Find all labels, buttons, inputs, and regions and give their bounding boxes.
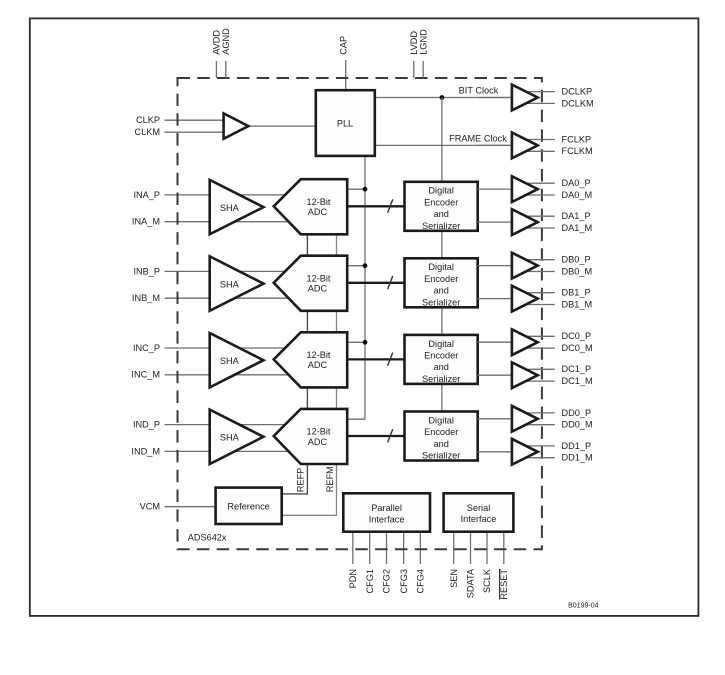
svg-text:DC1_P: DC1_P (562, 364, 592, 374)
bus ADC A to encoder (347, 205, 404, 207)
wire INA_M input (165, 221, 311, 223)
ADC 12-bit channel B (274, 256, 348, 311)
wire DA1_M output (516, 227, 555, 229)
amplifier SHA channel B (210, 256, 264, 310)
svg-text:Parallel: Parallel (371, 503, 402, 513)
svg-text:ADS642x: ADS642x (188, 532, 227, 542)
pin tick AGND (225, 61, 227, 78)
amplifier SHA channel D (210, 410, 264, 464)
buffer clock input (224, 113, 249, 138)
wire ADC clock tap channel B (347, 265, 365, 267)
svg-text:Interface: Interface (369, 514, 405, 524)
svg-text:and: and (434, 439, 449, 449)
svg-text:VCM: VCM (140, 502, 160, 512)
wire FCLKM output (516, 150, 555, 152)
wire CLKM input (165, 131, 225, 133)
buffer output driver DA0 (512, 176, 538, 202)
reference block (216, 488, 282, 524)
wire interface pin stem x=386.5 (386, 532, 388, 564)
svg-text:INB_P: INB_P (133, 266, 160, 276)
svg-text:BIT Clock: BIT Clock (459, 85, 499, 95)
bus ADC D to encoder (347, 435, 404, 437)
wire DCLKP output (516, 91, 555, 93)
svg-text:Serializer: Serializer (422, 297, 460, 307)
ADC 12-bit channel D (274, 409, 348, 464)
svg-text:ADC: ADC (308, 360, 328, 370)
wire INB_M input (165, 297, 311, 299)
svg-text:DC0_P: DC0_P (562, 331, 592, 341)
wire DB0_P output (516, 259, 555, 261)
svg-text:12-Bit: 12-Bit (306, 427, 330, 437)
node BIT Clock junction (440, 95, 445, 100)
svg-text:Digital: Digital (428, 186, 454, 196)
wire encoder to buffer DCLK (478, 97, 512, 99)
svg-text:DD1_M: DD1_M (562, 453, 593, 463)
wire ADC clock tap channel A (347, 188, 365, 190)
wire encoder to buffer DA0 (478, 188, 512, 190)
wire ADC clock tap channel C (347, 341, 365, 343)
wire interface pin stem x=352.8 (352, 532, 354, 564)
bus ADC B to encoder (347, 282, 404, 284)
wire DD0_P output (516, 412, 555, 414)
svg-text:DB1_P: DB1_P (562, 288, 591, 298)
svg-text:INC_M: INC_M (131, 370, 160, 380)
svg-text:INB_M: INB_M (132, 293, 160, 303)
svg-text:DA0_M: DA0_M (562, 190, 593, 200)
svg-text:DA0_P: DA0_P (562, 178, 591, 188)
wire DB1_M output (516, 304, 555, 306)
svg-text:CFG4: CFG4 (416, 569, 426, 594)
wire DC0_M output (516, 347, 555, 349)
wire DA1_P output (516, 215, 555, 217)
svg-text:B0199-04: B0199-04 (568, 603, 598, 610)
buffer output driver DC0 (512, 329, 538, 355)
svg-text:and: and (434, 286, 449, 296)
wire FRAME Clock from PLL to FCLK buffer (375, 144, 516, 146)
svg-text:12-Bit: 12-Bit (306, 273, 330, 283)
svg-text:Serial: Serial (467, 503, 491, 513)
svg-text:and: and (434, 209, 449, 219)
svg-text:DCLKP: DCLKP (562, 87, 593, 97)
svg-text:CLKP: CLKP (136, 115, 160, 125)
wire DB0_M output (516, 271, 555, 273)
wire ADC sampling clock vertical from PLL (364, 155, 366, 419)
encoder/serializer block channel B (405, 258, 478, 307)
svg-text:FCLKP: FCLKP (562, 134, 592, 144)
wire interface pin stem x=487.0 (486, 532, 488, 564)
op-amp PLL block U-PLL (316, 90, 375, 156)
svg-text:12-Bit: 12-Bit (306, 197, 330, 207)
node clock tap junction C (363, 340, 368, 345)
wire DC1_P output (516, 368, 555, 370)
svg-text:PDN: PDN (348, 569, 358, 588)
svg-text:ADC: ADC (308, 207, 328, 217)
wire DA0_M output (516, 194, 555, 196)
svg-text:SHA: SHA (220, 356, 240, 366)
buffer output driver DA1 (512, 209, 538, 235)
wire DA0_P output (516, 182, 555, 184)
svg-text:SCLK: SCLK (482, 568, 492, 593)
wire INC_M input (165, 374, 311, 376)
svg-text:DA1_P: DA1_P (562, 211, 591, 221)
svg-text:CFG1: CFG1 (365, 569, 375, 594)
svg-text:INA_M: INA_M (132, 217, 160, 227)
wire IND_M input (165, 450, 311, 452)
ADC 12-bit channel C (274, 332, 348, 387)
svg-text:DD1_P: DD1_P (562, 441, 592, 451)
svg-text:CAP: CAP (338, 36, 348, 55)
svg-text:RESET: RESET (499, 569, 509, 600)
wire DD0_M output (516, 424, 555, 426)
bus slash mark B (388, 276, 393, 289)
wire DD1_M output (516, 457, 555, 459)
svg-text:ADC: ADC (308, 437, 328, 447)
svg-text:CFG3: CFG3 (399, 569, 409, 594)
wire BIT Clock vertical distribution (441, 98, 443, 437)
svg-text:SEN: SEN (449, 569, 459, 588)
svg-text:IND_M: IND_M (131, 446, 160, 456)
serial interface block (444, 493, 514, 531)
wire DD1_P output (516, 445, 555, 447)
svg-text:Reference: Reference (227, 502, 269, 512)
svg-text:DB0_M: DB0_M (562, 266, 593, 276)
svg-text:INC_P: INC_P (133, 343, 160, 353)
wire INA_P input (165, 194, 311, 196)
bus ADC C to encoder (347, 358, 404, 360)
svg-text:Serializer: Serializer (422, 451, 460, 461)
wire IND_P input (165, 424, 311, 426)
wire encoder to buffer DD0 (478, 418, 512, 420)
amplifier SHA channel A (210, 180, 264, 234)
parallel interface block (343, 493, 430, 531)
buffer output driver DCLK (512, 85, 538, 111)
buffer output driver FCLK (512, 133, 538, 159)
wire encoder to buffer DB1 (478, 298, 512, 300)
wire encoder to buffer DC0 (478, 341, 512, 343)
svg-text:DB0_P: DB0_P (562, 255, 591, 265)
wire encoder to buffer FCLK (478, 144, 512, 146)
bus slash mark C (388, 353, 393, 366)
svg-text:DD0_M: DD0_M (562, 420, 593, 430)
wire DC0_P output (516, 335, 555, 337)
chip boundary (dashed) ADS642x (178, 78, 542, 549)
bus slash mark A (388, 199, 393, 212)
bus slash mark D (388, 429, 393, 442)
svg-text:INA_P: INA_P (133, 190, 160, 200)
wire encoder to buffer DC1 (478, 374, 512, 376)
wire interface pin stem x=403.6 (403, 532, 405, 564)
wire clock buffer to PLL (248, 125, 316, 127)
wire interface pin stem x=453.7 (453, 532, 455, 564)
svg-text:SDATA: SDATA (466, 568, 476, 598)
svg-text:Interface: Interface (461, 514, 497, 524)
svg-text:REFP: REFP (295, 468, 305, 493)
wire REFM rail (282, 206, 337, 515)
node clock tap junction B (363, 263, 368, 268)
svg-text:Encoder: Encoder (424, 427, 458, 437)
buffer output driver DD1 (512, 439, 538, 465)
wire encoder to buffer DA1 (478, 221, 512, 223)
wire FCLKP output (516, 139, 555, 141)
node clock tap junction A (363, 187, 368, 192)
svg-text:REFM: REFM (325, 466, 335, 492)
ADC 12-bit channel A (274, 179, 348, 234)
encoder/serializer block channel C (405, 335, 478, 384)
wire encoder to buffer DD1 (478, 451, 512, 453)
svg-text:CLKM: CLKM (134, 127, 160, 137)
wire VCM input (165, 506, 216, 508)
svg-text:Encoder: Encoder (424, 197, 458, 207)
svg-text:SHA: SHA (220, 280, 240, 290)
wire INC_P input (165, 347, 311, 349)
svg-text:LGND: LGND (418, 29, 428, 55)
wire encoder to buffer DB0 (478, 265, 512, 267)
svg-text:DD0_P: DD0_P (562, 408, 592, 418)
svg-text:PLL: PLL (337, 119, 353, 129)
svg-text:DB1_M: DB1_M (562, 299, 593, 309)
svg-text:AGND: AGND (221, 28, 231, 55)
svg-text:DCLKM: DCLKM (562, 98, 594, 108)
svg-text:Serializer: Serializer (422, 221, 460, 231)
pin tick LGND (422, 61, 424, 78)
buffer output driver DB0 (512, 253, 538, 279)
wire interface pin stem x=420.4 (419, 532, 421, 564)
svg-text:FCLKM: FCLKM (562, 146, 593, 156)
svg-text:DA1_M: DA1_M (562, 223, 593, 233)
svg-text:Digital: Digital (428, 339, 454, 349)
svg-text:SHA: SHA (220, 433, 240, 443)
buffer output driver DC1 (512, 362, 538, 388)
encoder/serializer block channel D (405, 412, 478, 461)
svg-text:CFG2: CFG2 (382, 569, 392, 594)
amplifier SHA channel C (210, 333, 264, 387)
svg-text:DC1_M: DC1_M (562, 376, 593, 386)
svg-text:Serializer: Serializer (422, 374, 460, 384)
wire interface pin stem x=503.8 (503, 532, 505, 564)
svg-text:SHA: SHA (220, 203, 240, 213)
wire CLKP input (165, 119, 225, 121)
wire interface pin stem x=369.7 (369, 532, 371, 564)
buffer output driver DD0 (512, 406, 538, 432)
wire BIT Clock from PLL to DCLK buffer (375, 97, 516, 99)
wire ADC clock tap channel D (347, 418, 365, 420)
wire REFP rail (282, 206, 308, 494)
wire CAP pin to PLL (345, 60, 347, 91)
svg-text:IND_P: IND_P (133, 420, 160, 430)
svg-text:Digital: Digital (428, 262, 454, 272)
buffer output driver DB1 (512, 286, 538, 312)
svg-text:12-Bit: 12-Bit (306, 350, 330, 360)
wire INB_P input (165, 270, 311, 272)
svg-text:ADC: ADC (308, 284, 328, 294)
pin tick LVDD (413, 61, 415, 78)
wire interface pin stem x=470.5 (470, 532, 472, 564)
svg-text:and: and (434, 362, 449, 372)
svg-text:Encoder: Encoder (424, 274, 458, 284)
svg-text:DC0_M: DC0_M (562, 343, 593, 353)
wire DB1_P output (516, 292, 555, 294)
svg-text:FRAME Clock: FRAME Clock (449, 133, 507, 143)
svg-text:Digital: Digital (428, 415, 454, 425)
wire DC1_M output (516, 380, 555, 382)
pin tick AVDD (215, 61, 217, 78)
wire DCLKM output (516, 102, 555, 104)
svg-text:Encoder: Encoder (424, 351, 458, 361)
encoder/serializer block channel A (405, 182, 478, 231)
